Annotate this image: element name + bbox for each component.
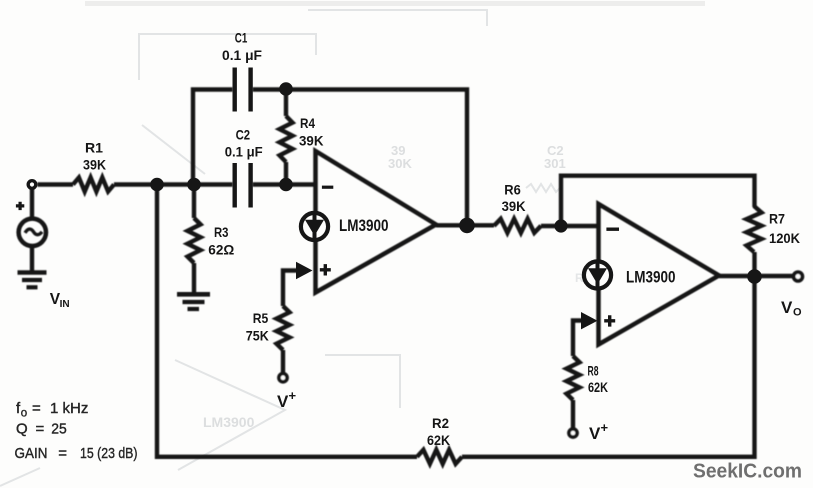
svg-text:120K: 120K — [769, 230, 800, 246]
svg-text:62K: 62K — [588, 379, 608, 395]
svg-text:R2: R2 — [432, 415, 449, 431]
svg-text:0.1 μF: 0.1 μF — [225, 143, 263, 159]
svg-text:V: V — [277, 392, 289, 411]
svg-text:V: V — [781, 298, 793, 317]
svg-text:75K: 75K — [246, 328, 269, 344]
svg-text:25: 25 — [51, 421, 67, 438]
svg-text:1 kHz: 1 kHz — [50, 400, 88, 417]
svg-text:O: O — [793, 307, 802, 319]
svg-text:o: o — [21, 408, 27, 420]
svg-text:R8: R8 — [588, 363, 599, 379]
svg-text:R7: R7 — [769, 211, 785, 227]
svg-text:=: = — [58, 445, 67, 462]
svg-text:R5: R5 — [253, 310, 269, 326]
svg-text:39K: 39K — [83, 157, 106, 173]
svg-text:62K: 62K — [427, 432, 450, 448]
svg-text:=: = — [32, 400, 41, 417]
svg-text:+: + — [289, 388, 297, 403]
svg-text:0.1 μF: 0.1 μF — [222, 47, 262, 63]
svg-text:39K: 39K — [502, 198, 526, 214]
svg-text:39K: 39K — [299, 133, 324, 149]
svg-text:301: 301 — [544, 156, 566, 171]
svg-text:R4: R4 — [300, 115, 315, 131]
svg-text:V: V — [589, 424, 601, 443]
svg-text:+: + — [601, 420, 609, 435]
svg-text:62Ω: 62Ω — [208, 242, 234, 258]
svg-text:LM3900: LM3900 — [339, 216, 389, 235]
svg-text:R6: R6 — [504, 182, 521, 198]
svg-text:30K: 30K — [388, 156, 412, 171]
svg-text:R3: R3 — [214, 224, 229, 240]
svg-text:IN: IN — [60, 298, 70, 310]
svg-text:R1: R1 — [85, 140, 103, 156]
svg-text:C2: C2 — [236, 127, 251, 143]
svg-text:=: = — [36, 421, 45, 438]
svg-text:SeekIC.com: SeekIC.com — [693, 461, 802, 483]
svg-text:LM3900: LM3900 — [203, 414, 255, 430]
svg-text:GAIN: GAIN — [15, 445, 48, 462]
svg-text:15 (23 dB): 15 (23 dB) — [80, 445, 138, 462]
svg-text:LM3900: LM3900 — [626, 268, 676, 287]
svg-text:Q: Q — [16, 421, 28, 438]
svg-text:C1: C1 — [235, 30, 248, 46]
